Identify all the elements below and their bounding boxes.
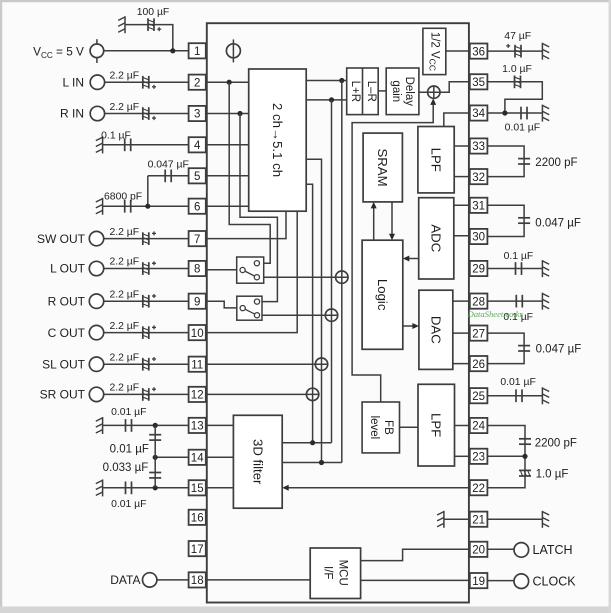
- terminal Vcc: [96, 39, 98, 63]
- capacitor 47uF: [514, 45, 516, 58]
- capacitor 0.01uF (pin 34): [520, 107, 522, 120]
- capacitor 2.2uF (pin 12): [142, 388, 144, 401]
- pin 29: [470, 261, 488, 276]
- wire switch2 out to summing node: [259, 314, 338, 316]
- ground (pin 21): [541, 511, 543, 528]
- wire pin 34 decoupling: [487, 112, 542, 114]
- capacitor 100uF: [147, 18, 149, 31]
- svg-text:0.01 µF: 0.01 µF: [500, 377, 535, 388]
- pin 11: [189, 357, 206, 372]
- svg-text:CLOCK: CLOCK: [533, 574, 577, 588]
- pin 34: [470, 105, 488, 120]
- svg-text:47 µF: 47 µF: [504, 31, 531, 42]
- svg-text:LPF: LPF: [429, 148, 444, 172]
- pin 25: [470, 388, 488, 403]
- wire FB level feedback path: [352, 104, 433, 402]
- bus A (L mix): [341, 81, 343, 463]
- pin 5: [189, 168, 206, 183]
- terminal R OUT: [89, 294, 103, 308]
- capacitor 6800pF: [124, 200, 126, 213]
- switch SW2 (R bypass): [237, 296, 262, 320]
- wire pins 24-23-22 chain: [487, 426, 525, 488]
- svg-text:2.2 µF: 2.2 µF: [109, 102, 139, 113]
- svg-text:SW OUT: SW OUT: [37, 232, 86, 246]
- capacitor 2200pF (24-23): [519, 438, 531, 440]
- ground (pin 29): [541, 260, 543, 277]
- wire pin 13 to 3D filter: [206, 424, 234, 426]
- wire pin 2 to 2ch block: [206, 81, 249, 83]
- capacitor 0.033uF (between 14,15): [149, 472, 161, 474]
- wire pin 6 to 2ch block: [206, 205, 249, 207]
- junction pin 15: [153, 485, 158, 490]
- wire 3D filter out upper: [282, 442, 331, 444]
- svg-text:2 ch→5.1 ch: 2 ch→5.1 ch: [270, 103, 285, 177]
- wire pin 4 decoupling: [103, 144, 189, 146]
- wire DATA to pin 18: [150, 579, 189, 581]
- svg-text:0.033 µF: 0.033 µF: [103, 462, 149, 474]
- svg-text:23: 23: [472, 452, 485, 464]
- svg-text:2.2 µF: 2.2 µF: [109, 383, 139, 394]
- junction bus B / 3D in: [319, 460, 324, 465]
- terminal SL OUT: [89, 357, 103, 371]
- pin 31: [470, 198, 488, 213]
- block MCU I/F: [310, 548, 360, 599]
- pin 12: [189, 387, 206, 402]
- wire pin 35 coupling: [487, 82, 542, 113]
- capacitor 2200pF (33-32): [518, 158, 530, 160]
- pin 20: [470, 542, 488, 557]
- summing node L: [336, 271, 348, 283]
- svg-text:34: 34: [472, 108, 485, 120]
- pin 21: [470, 512, 488, 527]
- svg-text:1: 1: [194, 46, 200, 58]
- wire pin 6: [103, 205, 189, 207]
- junction bus D / 3D in: [310, 440, 315, 445]
- wire pin 10 to 2ch block bottom: [206, 211, 297, 332]
- capacitor 1.0uF (pin 35): [514, 76, 516, 89]
- ground (pin 13): [102, 417, 104, 434]
- wire 3D filter out lower: [282, 462, 342, 464]
- svg-text:0.047 µF: 0.047 µF: [536, 343, 582, 355]
- svg-text:32: 32: [472, 172, 485, 184]
- block FB level: [362, 402, 399, 453]
- wire switch1 bypass to L IN: [229, 82, 270, 263]
- wire pins 27-26 bracket: [487, 333, 524, 364]
- wire pins 31-30 bracket: [487, 205, 524, 236]
- capacitor 0.01uF (between 13,14): [149, 434, 161, 436]
- wire pin 36 decoupling: [487, 50, 542, 52]
- svg-text:MCU: MCU: [337, 560, 349, 586]
- capacitor 0.047uF (31-30): [518, 217, 530, 219]
- svg-text:SL OUT: SL OUT: [42, 357, 86, 371]
- capacitor 0.01uF (pin 25): [515, 389, 517, 402]
- terminal DATA: [143, 573, 157, 587]
- svg-text:4: 4: [194, 140, 201, 152]
- wire summing to pin 35: [440, 82, 470, 92]
- ground (pin 25): [541, 387, 543, 404]
- wire pin 28 decoupling: [487, 300, 542, 302]
- svg-text:7: 7: [194, 234, 200, 246]
- pin 17: [189, 541, 206, 556]
- svg-text:SRAM: SRAM: [375, 148, 390, 186]
- block LPF lower: [418, 384, 455, 466]
- block 1/2 Vcc: [423, 28, 446, 74]
- summing node SL: [315, 358, 327, 370]
- svg-text:LPF: LPF: [429, 413, 444, 437]
- capacitor 2.2uF (pin 2): [142, 76, 144, 89]
- svg-text:2200 pF: 2200 pF: [535, 438, 577, 450]
- block Logic: [362, 240, 403, 349]
- block ADC: [419, 198, 454, 279]
- svg-text:36: 36: [472, 46, 485, 58]
- svg-text:1.0 µF: 1.0 µF: [502, 64, 532, 75]
- terminal C OUT: [89, 325, 103, 339]
- pin 13: [189, 418, 206, 433]
- capacitor 0.1uF (pin 29): [515, 262, 517, 275]
- terminal LATCH: [514, 543, 529, 558]
- svg-text:25: 25: [472, 391, 485, 403]
- wire vertical chain pins 13-15: [154, 425, 156, 487]
- svg-text:0.047 µF: 0.047 µF: [535, 218, 581, 230]
- junction Vcc/100uF: [170, 48, 175, 53]
- svg-text:Delay: Delay: [403, 77, 415, 107]
- svg-text:15: 15: [191, 483, 204, 495]
- wire Vcc to pin 1: [97, 50, 188, 52]
- wire R IN to pin 3: [97, 113, 188, 115]
- bus C (R mix): [331, 100, 333, 443]
- pin 23: [470, 449, 488, 464]
- svg-text:14: 14: [191, 453, 204, 465]
- capacitor 0.047uF (27-26): [518, 345, 530, 347]
- pin 26: [470, 356, 488, 371]
- svg-text:22: 22: [472, 483, 485, 495]
- pin 8: [189, 261, 206, 276]
- block SRAM: [363, 133, 402, 202]
- wire pin 23 stub: [487, 455, 525, 457]
- wire SL OUT to pin 11: [97, 363, 189, 365]
- capacitor 0.047uF (pin 5): [164, 170, 166, 183]
- IC outline: [207, 23, 469, 602]
- junction pin 14: [153, 455, 158, 460]
- wire pin 29 decoupling: [487, 268, 542, 270]
- wire C OUT to pin 10: [97, 332, 189, 334]
- capacitor 2.2uF (pin 10): [142, 326, 144, 339]
- wire pin 8 to switch: [206, 269, 240, 271]
- svg-text:16: 16: [191, 513, 204, 525]
- svg-text:2.2 µF: 2.2 µF: [109, 227, 139, 238]
- pin 2: [189, 75, 206, 90]
- svg-text:R OUT: R OUT: [48, 294, 86, 308]
- wire 2ch out3 + bus B: [306, 159, 321, 462]
- capacitor 2.2uF (pin 9): [142, 295, 144, 308]
- wire switch2 bypass to R IN: [240, 114, 277, 302]
- svg-text:26: 26: [472, 359, 485, 371]
- svg-text:20: 20: [472, 545, 485, 557]
- block 2ch->5.1ch: [249, 69, 307, 211]
- wire pins 33-32 bracket: [487, 146, 524, 177]
- pin 28: [470, 294, 488, 309]
- wire pin 3 to 2ch block: [206, 113, 249, 115]
- svg-text:Logic: Logic: [375, 279, 390, 311]
- wire pin 25 decoupling: [487, 395, 542, 397]
- svg-text:28: 28: [472, 296, 485, 308]
- svg-text:2.2 µF: 2.2 µF: [109, 321, 139, 332]
- svg-text:R IN: R IN: [60, 107, 84, 121]
- wire pin 20 to LATCH: [487, 548, 514, 550]
- summing node SR: [306, 388, 318, 400]
- wire L IN to pin 2: [97, 81, 188, 83]
- wire DAC to pin 26: [453, 363, 470, 365]
- svg-text:DATA: DATA: [110, 573, 140, 587]
- terminal SR OUT: [89, 387, 103, 401]
- summing node R: [325, 309, 337, 321]
- wire LPF to pin 33: [454, 145, 470, 147]
- wire pin 5: [148, 175, 189, 177]
- wire LPF to pin 32: [454, 176, 470, 178]
- terminal R IN: [90, 106, 104, 120]
- ground (pin 4): [102, 136, 104, 153]
- svg-text:0.01 µF: 0.01 µF: [110, 443, 149, 455]
- pin 24: [470, 418, 488, 433]
- pin 22: [470, 480, 488, 495]
- block DAC: [419, 290, 453, 369]
- pin 14: [189, 450, 206, 465]
- summing node pin35: [428, 86, 440, 98]
- node out1: [339, 78, 344, 83]
- terminal CLOCK: [514, 574, 529, 589]
- wire L+R box link to Delay gain: [378, 90, 386, 92]
- terminal pin1 internal: [232, 39, 234, 62]
- wire 2ch out2 to L+R: [306, 99, 347, 101]
- svg-text:0.01 µF: 0.01 µF: [505, 123, 540, 134]
- capacitor 0.01uF (pin 13): [125, 419, 127, 432]
- svg-text:17: 17: [191, 544, 204, 556]
- pin 27: [470, 326, 488, 341]
- ground (pin 28): [541, 293, 543, 310]
- wire 100uF branch: [125, 25, 173, 51]
- pin 6: [189, 199, 206, 214]
- wire 2ch out4 + bus D: [306, 184, 312, 442]
- wire ADC to pin 30: [454, 235, 470, 237]
- wire pin 12 to summing node: [206, 393, 319, 395]
- wire SR OUT to pin 12: [97, 393, 189, 395]
- svg-text:31: 31: [472, 201, 485, 213]
- pin 19: [470, 573, 488, 588]
- svg-text:L–R: L–R: [365, 81, 377, 102]
- wire pin 13: [103, 424, 189, 426]
- pin 4: [189, 137, 206, 152]
- capacitor 2.2uF (pin 3): [142, 107, 144, 120]
- svg-text:0.01 µF: 0.01 µF: [111, 499, 146, 510]
- pin 35: [470, 74, 488, 89]
- svg-text:30: 30: [472, 232, 485, 244]
- svg-text:LATCH: LATCH: [533, 543, 573, 557]
- terminal L OUT: [89, 261, 103, 275]
- svg-text:27: 27: [472, 328, 485, 340]
- junction pin5/pin6: [145, 204, 150, 209]
- wire SRAM-Logic down arrow: [391, 202, 393, 235]
- pin 32: [470, 169, 488, 184]
- svg-text:2: 2: [194, 77, 200, 89]
- pin 30: [470, 229, 488, 244]
- capacitor 1.0uF (23-22): [519, 469, 531, 471]
- pin 18: [189, 572, 206, 587]
- capacitor 0.1uF (pin 28): [515, 295, 517, 308]
- svg-text:2200 pF: 2200 pF: [535, 157, 577, 169]
- svg-text:100 µF: 100 µF: [137, 7, 170, 18]
- wire R OUT to pin 9: [97, 300, 189, 302]
- svg-text:2.2 µF: 2.2 µF: [109, 289, 139, 300]
- svg-text:6: 6: [194, 201, 200, 213]
- svg-text:L OUT: L OUT: [50, 262, 86, 276]
- svg-text:24: 24: [472, 421, 485, 433]
- block Delay gain: [386, 68, 419, 115]
- node L-in junction: [227, 80, 232, 85]
- capacitor 0.1uF (pin 4): [124, 139, 126, 152]
- svg-text:FB: FB: [382, 420, 394, 435]
- wire pin 21 internal ground: [444, 518, 470, 520]
- pin 36: [470, 44, 488, 59]
- svg-text:0.1 µF: 0.1 µF: [504, 251, 534, 262]
- wire pin 18 to MCU I/F: [206, 579, 310, 581]
- capacitor 2.2uF (pin 8): [142, 262, 144, 275]
- pin 3: [189, 106, 206, 121]
- wire pin 4 to 2ch block: [206, 144, 249, 146]
- svg-text:1.0 µF: 1.0 µF: [536, 469, 569, 481]
- block L+R / L-R: [347, 68, 379, 115]
- svg-text:6800 pF: 6800 pF: [104, 191, 142, 202]
- svg-text:DAC: DAC: [428, 316, 443, 344]
- svg-text:11: 11: [191, 359, 203, 371]
- svg-text:2.2 µF: 2.2 µF: [109, 257, 139, 268]
- ground (100uF): [124, 16, 126, 33]
- svg-text:5: 5: [194, 171, 200, 183]
- wire pin 21 external ground: [487, 518, 542, 520]
- svg-text:0.01 µF: 0.01 µF: [111, 407, 146, 418]
- wire SRAM-Logic up arrow: [373, 208, 375, 241]
- svg-text:9: 9: [194, 296, 200, 308]
- switch SW1 (L bypass): [237, 257, 264, 283]
- pin 33: [470, 138, 488, 153]
- svg-text:10: 10: [191, 328, 204, 340]
- capacitor 2.2uF (pin 7): [142, 232, 144, 245]
- svg-text:33: 33: [472, 141, 485, 153]
- capacitor 0.01uF (pin 15): [125, 482, 127, 495]
- block LPF upper: [418, 127, 454, 193]
- wire L OUT to pin 8: [97, 268, 189, 270]
- terminal SW OUT: [89, 231, 103, 245]
- wire pin 5 to 2ch block: [206, 175, 249, 177]
- wire MCU to pin 19: [361, 579, 470, 581]
- wire 1/2Vcc to pin 36: [446, 50, 470, 52]
- svg-text:35: 35: [472, 77, 485, 89]
- svg-text:8: 8: [194, 264, 200, 276]
- svg-text:3D filter: 3D filter: [250, 439, 265, 485]
- wire pin 34 to LPF: [444, 113, 470, 127]
- ground (pin 34): [541, 105, 543, 122]
- wire pin 7 to 2ch block bottom: [206, 211, 286, 238]
- wire Logic to DAC arrow: [403, 325, 414, 327]
- capacitor 2.2uF (pin 11): [142, 358, 144, 371]
- pin 7: [189, 231, 206, 246]
- wire DAC to pin 27: [453, 332, 470, 334]
- wire SW OUT to pin 7: [97, 238, 189, 240]
- wire pin 11 to summing node: [206, 363, 328, 365]
- node out2: [329, 97, 334, 102]
- svg-text:SR OUT: SR OUT: [40, 388, 86, 402]
- svg-text:29: 29: [472, 264, 485, 276]
- svg-text:2.2 µF: 2.2 µF: [109, 352, 139, 363]
- ground (pin 36): [541, 43, 543, 60]
- wire pin5 branch down: [147, 176, 149, 206]
- wire 2ch out1 to L+R: [306, 80, 347, 82]
- wire pin 15 to 3D filter: [206, 487, 234, 489]
- wire pin 20 to MCU: [361, 549, 470, 560]
- pin 16: [189, 510, 206, 525]
- wire pin 14: [155, 456, 188, 458]
- svg-text:0.047 µF: 0.047 µF: [148, 160, 189, 171]
- wire LPF to pin 24: [455, 425, 470, 427]
- terminal L IN: [90, 75, 104, 89]
- svg-text:DataSheet.co.kr: DataSheet.co.kr: [467, 309, 524, 319]
- junction pin 23: [522, 454, 527, 459]
- svg-text:C OUT: C OUT: [48, 326, 86, 340]
- wire pin 22 to 3D filter: [288, 487, 470, 489]
- svg-text:L IN: L IN: [62, 75, 84, 89]
- pin 10: [189, 325, 206, 340]
- ground (pin 15): [102, 479, 104, 496]
- wire pin 19 to CLOCK: [487, 580, 514, 582]
- svg-text:3: 3: [194, 109, 200, 121]
- wire FB level to LPF: [400, 426, 419, 428]
- svg-text:21: 21: [472, 514, 485, 526]
- pin 9: [189, 294, 206, 309]
- svg-text:VCC = 5 V: VCC = 5 V: [33, 45, 84, 61]
- pin 15: [189, 480, 206, 495]
- wire pin 9 to switch: [206, 301, 240, 308]
- arrow into 3D filter: [282, 485, 289, 491]
- junction pin 13: [153, 423, 158, 428]
- svg-text:I/F: I/F: [322, 566, 334, 579]
- node R-in junction: [237, 111, 242, 116]
- svg-text:13: 13: [191, 421, 204, 433]
- wire ADC to Logic arrow: [409, 258, 419, 260]
- svg-text:level: level: [368, 416, 380, 440]
- pin 1: [189, 43, 206, 58]
- wire switch1 out to summing node: [259, 276, 349, 278]
- wire LPF to pin 23: [455, 455, 470, 457]
- wire Delay gain to summing: [419, 91, 440, 93]
- wire DAC to pin 28: [453, 300, 470, 302]
- block 3D filter: [233, 415, 282, 508]
- svg-text:19: 19: [472, 576, 485, 588]
- wire pin 15: [103, 487, 189, 489]
- wire ADC to pin 31: [454, 204, 470, 206]
- svg-text:L+R: L+R: [349, 81, 361, 102]
- svg-text:ADC: ADC: [429, 224, 444, 252]
- ground (pin 6): [102, 198, 104, 215]
- svg-text:18: 18: [191, 575, 204, 587]
- svg-text:gain: gain: [390, 80, 402, 102]
- svg-text:2.2 µF: 2.2 µF: [109, 71, 139, 82]
- wire pin 14 to 3D filter: [206, 456, 234, 458]
- svg-text:0.1 µF: 0.1 µF: [101, 131, 131, 142]
- svg-text:12: 12: [191, 390, 204, 402]
- junction pin34/1.0uF: [502, 110, 507, 115]
